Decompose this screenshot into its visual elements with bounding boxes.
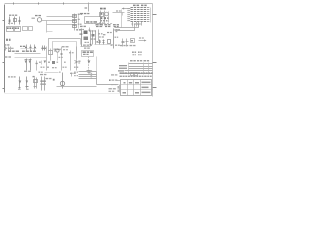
- side text column: [118, 86, 119, 89]
- marks G bottom2: [84, 48, 86, 49]
- terminal box X2: [7, 27, 14, 32]
- transformer T1: [37, 18, 41, 22]
- bridge blob3: [99, 23, 101, 24]
- speck row1 b: [48, 62, 50, 63]
- capacitor C8: [103, 40, 105, 45]
- speck row3 b: [59, 72, 61, 73]
- diode D8: [44, 61, 47, 64]
- fuse F1 body: [9, 20, 11, 23]
- terminal box X2 text: [7, 27, 9, 29]
- relay K1 box: [85, 17, 101, 24]
- marks above led2: [74, 75, 76, 76]
- label X1: [100, 8, 103, 10]
- cluster H left marks: [5, 56, 8, 57]
- speck row2 e: [63, 67, 65, 68]
- label mid bottom: [46, 78, 49, 79]
- filter side rail: [78, 15, 80, 29]
- cap k1: [36, 61, 38, 71]
- title col 3: [140, 80, 142, 96]
- arrow symbol: [75, 61, 78, 64]
- bus wire 4: [79, 78, 97, 80]
- switch S1 labels: [20, 46, 22, 47]
- speck row3 c: [74, 72, 76, 73]
- terminal box X5: [29, 27, 33, 31]
- text bit R1: [132, 52, 134, 53]
- text bit R2: [138, 52, 140, 53]
- filter FL1 box2: [73, 20, 77, 23]
- legend marks2: [109, 91, 112, 92]
- speck row2 a: [41, 67, 43, 68]
- fuse F1: [9, 17, 11, 25]
- text bit R3: [133, 54, 134, 55]
- thermistor RT1: [105, 12, 109, 16]
- speck row1 a: [39, 62, 41, 63]
- wire stub right: [47, 31, 53, 33]
- marks mid: [62, 46, 65, 47]
- marks G bottom: [83, 45, 86, 46]
- bus wire right: [97, 84, 119, 86]
- label fuse F1: [9, 15, 11, 16]
- led DL1: [60, 81, 64, 85]
- capacitor row dots: [25, 47, 27, 48]
- wire neutral: [42, 20, 74, 22]
- connector J2 rows: [129, 63, 153, 65]
- wire stub vertical: [46, 21, 48, 33]
- wire rail B: [50, 49, 52, 61]
- label R5: [54, 49, 56, 50]
- wire bottom rail: [57, 86, 97, 88]
- resistor R1: [84, 31, 88, 35]
- legend dash 2: [109, 79, 111, 81]
- bus wire 3: [79, 76, 97, 78]
- label right rail: [116, 29, 118, 30]
- label above C12: [40, 74, 43, 75]
- label LA: [83, 51, 86, 53]
- cluster F label1: [120, 45, 123, 46]
- cluster E parts: [6, 47, 11, 51]
- marks G bottom right: [111, 45, 113, 46]
- capacitor C6: [44, 46, 46, 51]
- bridge rail 2: [104, 11, 106, 25]
- filter FL1 labels: [78, 14, 80, 15]
- wire rail D: [61, 47, 63, 71]
- title row 2: [121, 89, 153, 91]
- corner wire inner: [115, 24, 135, 31]
- title col 1: [127, 80, 129, 96]
- transistor Q1 leads: [91, 31, 96, 45]
- cap k2: [41, 61, 43, 65]
- revision row 2: [120, 76, 122, 77]
- wire rail C: [57, 53, 59, 61]
- capacitor C10: [126, 39, 128, 47]
- title row 1: [121, 84, 153, 86]
- tick left 3: [3, 88, 5, 90]
- speck row2 c: [52, 67, 54, 68]
- dashed wire down: [88, 57, 90, 71]
- wire down from arrow: [121, 10, 123, 28]
- diode D4: [26, 59, 28, 71]
- border frame right: [152, 4, 154, 97]
- value label F1: [8, 23, 10, 24]
- label near wire: [116, 10, 118, 11]
- revision box2: [135, 73, 138, 76]
- wire phase: [47, 16, 74, 18]
- legend dash 3: [111, 84, 114, 85]
- shield drop inner: [76, 42, 78, 47]
- labels under diodes: [24, 71, 27, 72]
- cluster H text1: [8, 51, 11, 53]
- inductor L2 box: [131, 39, 135, 43]
- speck left rail: [79, 34, 81, 35]
- specks F top: [115, 37, 117, 38]
- label G3: [113, 24, 116, 25]
- wire earth: [47, 24, 74, 26]
- bus vertical upper: [96, 57, 98, 72]
- label under Q1: [97, 41, 99, 43]
- junction dot G1: [81, 33, 83, 35]
- transistor Q1 body: [92, 34, 95, 37]
- wire G mid vertical: [98, 30, 100, 41]
- arrowhead out: [144, 40, 146, 42]
- capacitor row C14: [27, 45, 35, 51]
- junction dot: [53, 79, 55, 81]
- speck row2 b: [47, 67, 49, 68]
- connector J2 header: [130, 60, 133, 61]
- transistor Q1 marks: [91, 39, 93, 40]
- wire H lower: [15, 57, 47, 59]
- bridge blob: [101, 17, 103, 19]
- wire to J1: [113, 12, 125, 14]
- filter FL1 box1: [73, 15, 77, 18]
- tick top 4: [88, 3, 90, 12]
- label after arrow: [78, 61, 80, 62]
- right rail stub: [114, 29, 119, 31]
- plus mark: [33, 76, 35, 77]
- tick top 2: [38, 3, 40, 5]
- bus wire 1: [79, 71, 97, 73]
- tick top 1: [13, 3, 15, 5]
- bridge rail 1: [100, 11, 102, 25]
- wire arrow to J1: [123, 8, 131, 10]
- pin stub labels: [132, 23, 134, 24]
- border frame top: [5, 3, 153, 5]
- value labels bottom: [18, 89, 21, 90]
- capacitor C5: [42, 46, 44, 51]
- tick top 3: [63, 3, 65, 5]
- connector J2 labels: [119, 65, 127, 66]
- shield box inner: [53, 42, 77, 51]
- parts E text: [69, 52, 71, 53]
- diode D6: [19, 77, 21, 89]
- marks left of T1: [32, 18, 35, 19]
- capacitor C1 fill: [101, 13, 103, 15]
- arrow label: [139, 37, 141, 38]
- speck row1 d: [64, 62, 66, 63]
- marks above led: [70, 73, 73, 74]
- cluster F label2: [130, 45, 133, 46]
- terminal box X3: [15, 27, 21, 32]
- cluster G speckle2: [85, 42, 87, 43]
- connector J1 header label: [133, 5, 136, 7]
- left rail: [81, 29, 83, 47]
- cluster H text2: [22, 51, 25, 53]
- marks mid2: [63, 49, 65, 50]
- title cell texts: [124, 82, 126, 84]
- tick left 1: [3, 20, 5, 22]
- capacitor CX1: [19, 17, 21, 25]
- bus end specks: [91, 70, 93, 71]
- cap k1 mark: [36, 63, 38, 64]
- speck R1 right: [89, 30, 91, 31]
- capacitor C1 body: [100, 13, 104, 17]
- legend dash 1: [111, 74, 114, 75]
- connector J1 pin labels: [127, 7, 130, 10]
- connector J2 columns: [129, 63, 149, 75]
- relay K1 text: [86, 21, 89, 23]
- resistor R2: [84, 37, 89, 41]
- label LA2: [83, 54, 86, 55]
- title block outline: [121, 80, 152, 96]
- varistor RV1 body: [14, 19, 17, 22]
- connector J1 pins: [131, 7, 147, 9]
- capacitor C12: [42, 77, 45, 91]
- border frame left: [4, 5, 6, 93]
- wire rect bottom: [85, 23, 113, 25]
- resistor R5 box: [49, 51, 53, 55]
- tick left 2: [3, 62, 5, 64]
- bus vertical: [96, 72, 98, 85]
- bridge rail 3: [108, 12, 110, 23]
- label above relay K1: [80, 13, 83, 14]
- ground symbol: [87, 71, 91, 74]
- speck row3 a: [39, 72, 41, 73]
- filter FL1 box3: [73, 25, 77, 28]
- filter FL1 rail: [74, 14, 76, 31]
- wire bottom seg: [45, 72, 59, 74]
- wire rail F: [76, 47, 78, 71]
- diode D5: [30, 59, 32, 71]
- label G left: [80, 26, 83, 27]
- tick right 1: [153, 14, 157, 16]
- speck row1 c: [57, 62, 59, 63]
- shield box outer: [49, 39, 81, 51]
- connector J1 pin stubs: [133, 22, 142, 27]
- switch S1 underline: [21, 48, 37, 50]
- right rail: [113, 29, 115, 49]
- cluster E text: [4, 44, 6, 45]
- wire G bottom left: [81, 46, 91, 48]
- diode D7: [26, 77, 28, 89]
- bridge blob2: [101, 20, 103, 21]
- label G1: [96, 24, 99, 25]
- shield drop outer: [80, 39, 82, 45]
- border frame bottom: [5, 93, 121, 95]
- capacitor CX1 plates: [19, 21, 21, 22]
- capacitor plates: [41, 48, 46, 49]
- capacitor C7: [99, 40, 101, 45]
- diode D3 body: [108, 40, 111, 44]
- side dim mark: [117, 80, 121, 82]
- cluster H wire: [15, 53, 41, 55]
- led DL1 stem: [62, 73, 64, 89]
- text bit R4: [138, 54, 139, 55]
- capacitor C13 plates: [61, 54, 63, 55]
- stub below wire: [122, 13, 124, 16]
- label bottom left: [8, 76, 10, 77]
- component dark box: [52, 61, 55, 64]
- capacitor C12 plates: [40, 81, 46, 82]
- corner wire outer: [115, 24, 139, 28]
- terminal box X4: [23, 27, 28, 31]
- ref label box: [82, 51, 94, 57]
- title col 2: [133, 80, 135, 96]
- capacitor C11: [35, 78, 37, 89]
- tick right 3: [153, 87, 157, 89]
- label T1: [35, 15, 38, 16]
- wire rail E: [70, 51, 72, 71]
- bus wire 2: [79, 74, 97, 76]
- junction dots: [55, 49, 56, 50]
- wire dots under K1: [80, 29, 81, 30]
- connector J1 right rail: [150, 8, 152, 23]
- terminal box X3 text: [15, 27, 17, 29]
- net label top: [85, 7, 88, 8]
- revision box1: [131, 73, 134, 76]
- wire G bottom right: [95, 44, 114, 46]
- label L1: [6, 39, 8, 41]
- capacitor C9: [122, 39, 124, 47]
- speck row2 d: [74, 67, 76, 68]
- label G2: [105, 24, 108, 25]
- diode D9: [88, 61, 91, 64]
- bracket vertical: [119, 85, 121, 93]
- cluster G speckle: [89, 30, 91, 31]
- label C13: [59, 57, 61, 58]
- wire rail A: [46, 47, 48, 71]
- revision row 1: [120, 72, 122, 73]
- stub above led: [71, 73, 73, 77]
- cluster E text2: [4, 48, 7, 49]
- wire arrow out: [139, 40, 145, 42]
- legend marks: [109, 88, 112, 89]
- arrowhead J1: [122, 8, 125, 10]
- junction dot G2: [90, 44, 92, 46]
- header stub: [89, 28, 91, 31]
- lamp H1: [56, 49, 59, 52]
- wire filter down: [76, 47, 78, 59]
- varistor RV1: [14, 17, 16, 25]
- tick right 2: [153, 62, 157, 64]
